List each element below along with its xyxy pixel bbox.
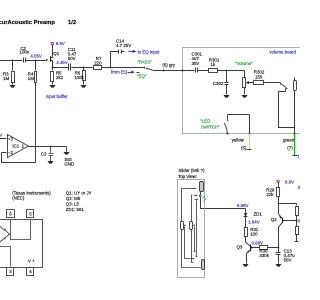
svg-text:220: 220 — [94, 61, 102, 66]
svg-text:ZD1: ZD1 — [254, 212, 263, 217]
svg-text:Q1: Q1 — [53, 51, 59, 56]
svg-text:1M: 1M — [3, 76, 9, 81]
svg-text:1M: 1M — [28, 76, 34, 81]
svg-text:1k: 1k — [211, 62, 216, 67]
svg-text:8.9V: 8.9V — [56, 41, 65, 46]
svg-text:22k: 22k — [266, 192, 274, 197]
svg-text:ZD1: 561: ZD1: 561 — [66, 207, 85, 212]
svg-text:IC1: IC1 — [12, 143, 19, 148]
svg-text:C3: C3 — [41, 151, 47, 156]
svg-text:Q1: UY or JY: Q1: UY or JY — [66, 190, 92, 195]
svg-text:"LED: "LED — [200, 119, 210, 124]
svg-text:(NEC): (NEC) — [12, 196, 25, 201]
svg-text:330k: 330k — [259, 253, 269, 258]
svg-text:GND: GND — [64, 161, 74, 166]
svg-text:to EQ input: to EQ input — [138, 49, 161, 54]
svg-text:1.64V: 1.64V — [248, 219, 260, 224]
svg-text:V: V — [0, 133, 2, 138]
svg-text:2k2: 2k2 — [56, 75, 64, 80]
svg-text:green: green — [283, 138, 295, 143]
svg-text:Q3: L5: Q3: L5 — [66, 202, 80, 207]
svg-text:(6) gry: (6) gry — [162, 63, 175, 68]
svg-text:yellow: yellow — [232, 138, 245, 143]
svg-text:4.05V: 4.05V — [30, 54, 42, 59]
svg-text:Q2: Q2 — [271, 217, 277, 222]
svg-text:100n: 100n — [20, 50, 30, 55]
svg-text:"EQ": "EQ" — [137, 74, 147, 79]
svg-text:1/2: 1/2 — [68, 20, 76, 26]
svg-text:150: 150 — [255, 74, 263, 79]
svg-text:"Volume": "Volume" — [235, 61, 253, 66]
svg-text:"PASS": "PASS" — [137, 60, 152, 65]
svg-text:6.98V: 6.98V — [237, 203, 249, 208]
svg-text:C302: C302 — [213, 81, 224, 86]
svg-text:(5): (5) — [241, 145, 247, 150]
svg-text:50V: 50V — [284, 257, 292, 262]
svg-text:Top View:: Top View: — [178, 174, 197, 179]
svg-text:SWITCH": SWITCH" — [201, 125, 220, 130]
svg-text:curAcoustic Preamp: curAcoustic Preamp — [0, 20, 55, 26]
svg-text:from EQ: from EQ — [111, 69, 128, 74]
svg-text:volume board: volume board — [269, 50, 296, 55]
svg-text:0: 0 — [298, 185, 300, 190]
svg-text:4.45V: 4.45V — [56, 60, 68, 65]
svg-text:100: 100 — [250, 232, 258, 237]
svg-text:0.68V: 0.68V — [252, 240, 264, 245]
svg-text:100k: 100k — [74, 75, 84, 80]
svg-text:50V: 50V — [68, 56, 76, 61]
svg-text:Q2: M5: Q2: M5 — [66, 196, 81, 201]
svg-text:8.9V: 8.9V — [285, 179, 294, 184]
svg-text:V +: V + — [28, 258, 35, 263]
svg-text:4.7 25V: 4.7 25V — [116, 43, 131, 48]
svg-text:35V: 35V — [192, 61, 200, 66]
svg-text:0: 0 — [298, 218, 300, 223]
svg-text:Slider (50k ?): Slider (50k ?) — [178, 168, 205, 173]
svg-text:input buffer: input buffer — [46, 94, 68, 99]
svg-text:(7): (7) — [287, 145, 293, 150]
svg-text:Q3: Q3 — [237, 245, 243, 250]
